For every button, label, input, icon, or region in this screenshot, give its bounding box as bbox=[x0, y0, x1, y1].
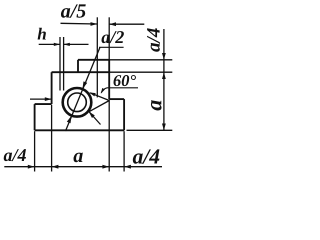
bottom arrow at 124.1 outside bbox=[124, 165, 131, 169]
a/2 leader diagonal through hole bbox=[66, 47, 101, 131]
bottom arrow at 34.6 outside bbox=[28, 165, 35, 169]
block mid-tier top edge + right a/4 extension bbox=[52, 71, 173, 73]
right a/4 arrow down bbox=[162, 53, 166, 60]
block top-tier left edge bbox=[77, 60, 79, 72]
block mid-tier left edge bbox=[51, 72, 53, 104]
label h bbox=[38, 28, 46, 40]
bottom extension line x=34.6 bbox=[34, 131, 36, 171]
diameter arrow upper bbox=[82, 81, 87, 89]
bottom extension line x=124.1 bbox=[123, 131, 125, 171]
label a bottom bbox=[74, 153, 83, 163]
block upper right edge bbox=[108, 60, 110, 99]
label a/2 bbox=[102, 31, 124, 43]
label a/4 right-top rotated bbox=[147, 28, 160, 51]
bottom a arrow left bbox=[52, 165, 59, 169]
block top-tier top edge + right a/4 extension bbox=[78, 59, 172, 61]
label 60deg bbox=[114, 75, 136, 86]
base bottom right extension line bbox=[127, 129, 173, 131]
label a/5 bbox=[61, 4, 86, 17]
countersink cone edge lower bbox=[90, 101, 110, 112]
a/5 extension line left bbox=[96, 17, 98, 97]
left face arrow bbox=[30, 98, 52, 100]
right dimension line vertical bbox=[163, 29, 165, 130]
bottom extension line x=51.6 bbox=[51, 105, 53, 172]
label a/4 bottom-left bbox=[4, 149, 26, 161]
label a/4 bottom-right bbox=[133, 149, 160, 163]
countersink cone edge upper bbox=[90, 93, 109, 101]
block base top-right edge bbox=[109, 98, 124, 100]
block base top-left edge bbox=[35, 103, 52, 105]
bottom dimension line bbox=[4, 166, 162, 168]
bottom extension line x=109.2 bbox=[108, 100, 110, 172]
label a right rotated bbox=[151, 100, 162, 110]
a/2 label shelf bbox=[99, 46, 124, 48]
block base bottom edge bbox=[35, 129, 125, 131]
a/5 dimension line left with arrow bbox=[61, 22, 98, 25]
right a arrow down bbox=[162, 124, 166, 131]
h dimension arrows bbox=[39, 43, 60, 45]
diameter arrow lower bbox=[67, 116, 72, 124]
hole outer circle bbox=[63, 88, 92, 117]
60deg label shelf bbox=[107, 87, 138, 89]
h extension line left bbox=[59, 37, 61, 91]
right a/4 / a shared arrow up bbox=[162, 72, 166, 79]
a/5 dimension line right with arrow bbox=[109, 23, 144, 25]
lower-right arrow tail bbox=[89, 112, 101, 125]
block base right edge bbox=[123, 99, 125, 130]
a/5 extension line right (merges into block edge) bbox=[108, 17, 110, 60]
60deg leader curve with arrow bbox=[101, 88, 107, 93]
hole inner circle bbox=[68, 93, 87, 112]
bottom a arrow right bbox=[102, 165, 109, 169]
h extension line right bbox=[63, 37, 65, 91]
block base left edge bbox=[34, 104, 36, 130]
